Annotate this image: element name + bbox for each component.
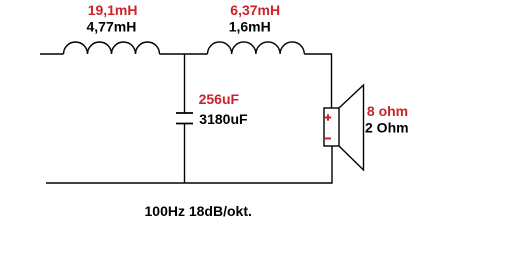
svg-text:256uF: 256uF (199, 91, 240, 107)
svg-text:6,37mH: 6,37mH (230, 2, 280, 18)
svg-text:100Hz 18dB/okt.: 100Hz 18dB/okt. (145, 203, 252, 219)
svg-text:2 Ohm: 2 Ohm (365, 119, 409, 135)
svg-text:4,77mH: 4,77mH (87, 19, 137, 35)
svg-text:19,1mH: 19,1mH (88, 2, 138, 18)
svg-text:1,6mH: 1,6mH (229, 19, 271, 35)
svg-text:8 ohm: 8 ohm (367, 103, 408, 119)
svg-text:3180uF: 3180uF (199, 111, 248, 127)
